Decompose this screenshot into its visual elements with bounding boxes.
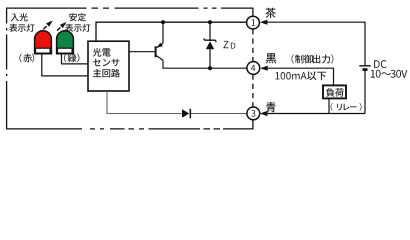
- label: 入光表示灯 (incident-light indicator): [9, 13, 34, 32]
- wire: base from box to transistor: [129, 51, 155, 53]
- transistor Q1 (PNP output): [155, 43, 163, 61]
- wire: collector down and right to pin 4: [163, 60, 247, 68]
- label: 安定表示灯 (stability indicator): [65, 13, 90, 32]
- label 茶: [265, 8, 275, 18]
- wire: +V top rail from box to pin 1: [96, 22, 247, 41]
- pin 4 (black output): [247, 62, 260, 75]
- label (リレー): [331, 103, 362, 111]
- arrow into pin 3: [260, 111, 268, 116]
- wire: emitter to top rail: [162, 22, 164, 43]
- load box 負荷: [323, 85, 346, 98]
- wire: pin1 to DC+: [266, 22, 365, 65]
- wire: load to 0V rail: [328, 98, 330, 113]
- arrow into pin 1: [260, 20, 268, 25]
- LED lamp (green) 安定表示灯: [57, 31, 74, 54]
- wire: green LED lead to main circuit box: [62, 54, 89, 64]
- label ZD: [223, 41, 235, 49]
- emission arrow (green LED): [57, 22, 67, 31]
- label 10~30V: [371, 70, 408, 78]
- pin 3 (blue 0V): [247, 107, 260, 120]
- wire: diode to pin 3: [191, 113, 247, 115]
- label 黒: [266, 53, 277, 63]
- pin 1 (brown +V): [247, 16, 260, 29]
- wire: red LED lead to main circuit box: [42, 54, 88, 76]
- emission arrow (red LED): [43, 20, 53, 29]
- label (制御出力): [292, 55, 334, 64]
- main circuit box 光電センサ主回路: [88, 41, 129, 91]
- battery DC source: [359, 66, 370, 114]
- label DC: [374, 60, 386, 68]
- label (赤): [19, 54, 34, 63]
- label 100mA以下: [276, 72, 327, 81]
- wire: box bottom to diode (grey): [107, 91, 182, 113]
- junction: emitter/top rail: [161, 20, 165, 24]
- diode D1: [182, 109, 191, 119]
- arrow into pin 4: [260, 66, 268, 71]
- LED lamp (red) 入光表示灯: [35, 31, 52, 54]
- junction: zener top: [208, 20, 212, 24]
- zener diode ZD: [204, 22, 217, 68]
- enclosure border (sensor case, dash-dot): [6, 8, 254, 130]
- label 青: [266, 102, 276, 112]
- label (緑): [64, 54, 79, 63]
- wire: pin4 to load: [266, 68, 334, 85]
- junction: zener bottom: [208, 66, 212, 70]
- wire: pin3 to DC-: [266, 113, 365, 115]
